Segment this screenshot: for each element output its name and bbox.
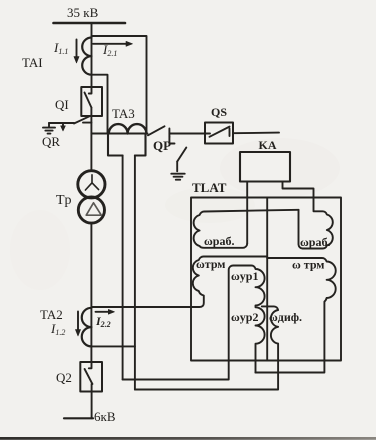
wire winding link (rab left to rab right) [205, 210, 299, 212]
bus 6 kV [64, 417, 93, 419]
disconnector QR wire [49, 122, 74, 124]
svg-text:ωраб.: ωраб. [204, 234, 234, 248]
svg-text:ωур2: ωур2 [231, 310, 258, 324]
svg-text:TLAT: TLAT [192, 180, 227, 195]
winding w-trm right (with lead to H_b and H_b wire) [255, 258, 335, 373]
svg-text:QR: QR [42, 134, 60, 149]
winding w-rab left [194, 211, 248, 247]
wire TA2 tap bottom [91, 345, 134, 347]
arrow I2.1 [93, 41, 133, 46]
ground at QR [48, 123, 50, 127]
svg-text:ωтрм: ωтрм [196, 257, 225, 271]
winding w-trm left (with lead to TA2 tap) [91, 257, 267, 308]
arrow I1.1 [74, 40, 79, 64]
QR blade [74, 116, 91, 124]
current transformer TA1 coil [82, 38, 91, 75]
svg-text:QS: QS [211, 105, 227, 119]
transformer Tp circles [78, 171, 105, 198]
winding w-dif (with lead down and H_c wire) [135, 306, 278, 389]
svg-text:TAI: TAI [22, 55, 43, 70]
wire TA3 secondary leg 1 [122, 156, 124, 380]
delta symbol [86, 203, 101, 215]
winding w-ur1 / w-ur2 (with left edge lead and H1 wire) [123, 266, 265, 380]
arrow I1.2 [75, 312, 80, 337]
svg-text:QI: QI [55, 97, 69, 112]
winding w-rab right [299, 198, 333, 249]
scan band bottom [0, 437, 376, 440]
svg-text:ωраб.: ωраб. [300, 235, 330, 249]
arrow I2.2 [96, 309, 115, 314]
wire main line (Q1 to Tp) [90, 108, 92, 171]
current transformer TA2 coil [82, 308, 92, 347]
wire middle vertical [266, 198, 268, 361]
current transformer TA3 coil [109, 124, 147, 133]
svg-text:KA: KA [259, 138, 277, 152]
earthing switch blade [177, 148, 186, 162]
wire TA3 primary [91, 133, 147, 135]
star symbol [85, 175, 98, 190]
wire main line (Tp to Q2) [90, 223, 92, 362]
svg-text:6кВ: 6кВ [94, 409, 116, 424]
svg-text:ωдиф.: ωдиф. [269, 310, 302, 324]
QP fixed contact [168, 129, 170, 137]
breaker Q2 [80, 362, 102, 392]
QR stub to main line [83, 122, 91, 124]
svg-text:Q2: Q2 [56, 370, 72, 385]
wire TA1 secondary lead 2 [92, 75, 108, 134]
breaker Q1 [81, 87, 102, 116]
wire TA1 secondary lead 1 (to I2.1, down right side) [92, 36, 147, 134]
wire QP to QS [169, 133, 205, 135]
QP earthing linkage [169, 137, 174, 144]
disconnector QS [205, 123, 233, 144]
svg-text:TA2: TA2 [40, 307, 63, 322]
wire TA3 secondary leg 2 [134, 156, 136, 390]
svg-text:QP: QP [153, 138, 171, 153]
wire KA right terminal [283, 182, 314, 198]
svg-text:ωур1: ωур1 [231, 269, 258, 283]
wire QS output [233, 132, 279, 135]
svg-text:TA3: TA3 [112, 106, 135, 121]
svg-text:ω трм: ω трм [292, 258, 324, 272]
svg-text:35 кВ: 35 кВ [67, 5, 99, 20]
svg-text:Tp: Tp [56, 193, 72, 208]
TLAT frame [191, 198, 341, 361]
transformer TA3 secondary block [108, 134, 123, 156]
relay KA box [240, 152, 290, 182]
wire Q2 to 6kV bus [91, 384, 93, 418]
bus 35 kV [54, 22, 126, 25]
QR arrow [61, 124, 66, 131]
ground at QP [171, 173, 184, 175]
wire main line top (bus to Q1) [91, 23, 93, 87]
switch QP blade [148, 126, 165, 135]
wire KA left terminal [246, 182, 248, 244]
